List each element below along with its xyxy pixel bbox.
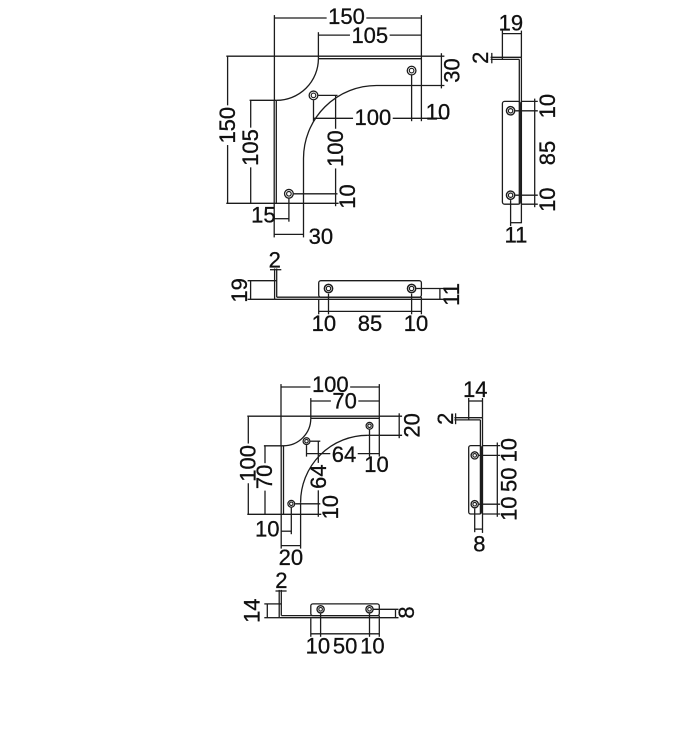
dim B 64 horizontal: ext right edge xyxy=(378,435,380,456)
svg-text:105: 105 xyxy=(238,129,263,166)
side B bar xyxy=(469,446,482,514)
svg-text:10: 10 xyxy=(255,517,279,542)
bottom A dims 10-85-10: line xyxy=(319,310,422,312)
hole A corner xyxy=(309,91,318,100)
dim B 64 horizontal: ext corner hole xyxy=(306,445,308,457)
bracket B concave corner arc xyxy=(284,418,311,446)
side B flange top with 2-dim ext xyxy=(454,417,482,419)
side B right dims: ext bar bottom xyxy=(483,513,500,515)
bottom A plate bottom edge xyxy=(275,298,422,300)
svg-text:50: 50 xyxy=(333,634,357,659)
bottom B bar xyxy=(311,604,380,616)
dim B 20 bottom: line xyxy=(281,545,300,547)
svg-text:10: 10 xyxy=(496,438,521,462)
dim B 70 top: line xyxy=(311,400,331,402)
svg-text:150: 150 xyxy=(215,107,240,144)
dim B 70 top: left extension xyxy=(310,398,312,418)
bottom B bar hole left xyxy=(317,606,324,613)
dim B 70 left: line xyxy=(264,446,266,463)
dim A 15: ext left edge xyxy=(273,203,275,237)
svg-text:11: 11 xyxy=(504,222,527,247)
bracket A right edge xyxy=(420,56,422,85)
bottom A dim 19: lower ext xyxy=(248,298,275,300)
bottom A flange inner with 2-dim ext xyxy=(276,269,278,298)
svg-text:100: 100 xyxy=(323,130,348,167)
svg-text:14: 14 xyxy=(240,598,265,622)
svg-text:8: 8 xyxy=(394,606,419,618)
bottom A dims: ext right hole xyxy=(411,294,413,315)
bottom A dim 19: upper ext xyxy=(248,280,275,282)
bracket B right edge xyxy=(378,416,380,435)
svg-text:10: 10 xyxy=(496,496,521,520)
side B plate outer edge xyxy=(482,418,484,533)
bottom B dim 14: line xyxy=(266,604,268,618)
side B flange end cap xyxy=(468,418,470,420)
dim A 150 top: left extension xyxy=(273,15,275,101)
dim A 105 left: line xyxy=(250,100,252,127)
svg-text:2: 2 xyxy=(275,568,287,593)
bracket B bottom edge with dim extensions xyxy=(247,513,321,515)
side A dim 19: line xyxy=(502,33,521,35)
svg-text:10: 10 xyxy=(312,311,336,336)
dim B 100 left: line xyxy=(247,416,249,443)
svg-text:70: 70 xyxy=(252,465,277,489)
bracket A left fold line xyxy=(275,100,277,203)
side A right dims: line xyxy=(534,99,536,208)
svg-text:30: 30 xyxy=(309,224,333,249)
side B plate inner edge xyxy=(479,420,481,514)
bracket A inner corner arc xyxy=(304,86,377,159)
svg-text:10: 10 xyxy=(335,184,360,208)
side A plate inner edge xyxy=(518,59,520,204)
side A dim 2: tick xyxy=(491,53,493,63)
dim A 150 left: line xyxy=(227,56,229,105)
dim A 30 bottom: ext inner edge xyxy=(303,203,305,237)
bottom B flange inner with 2-dim ext xyxy=(280,590,282,616)
hole A right arm xyxy=(407,66,416,75)
side B right dims: line xyxy=(496,443,498,517)
side B dim 8: line xyxy=(475,528,483,530)
bracket B left fold line xyxy=(283,446,285,515)
bottom A plate right cap xyxy=(420,297,422,299)
dim A 15: ext bottom hole xyxy=(288,199,290,222)
svg-text:10: 10 xyxy=(535,94,560,118)
svg-text:10: 10 xyxy=(426,100,450,125)
dim A 100 vertical: ext bottom hole xyxy=(294,193,338,195)
svg-text:10: 10 xyxy=(318,495,343,519)
bracket A left edge xyxy=(273,100,275,203)
bracket A bottom edge with dim extensions xyxy=(226,202,338,204)
svg-text:2: 2 xyxy=(468,52,493,64)
svg-text:64: 64 xyxy=(332,442,356,467)
bracket A left arm inner edge xyxy=(303,159,305,204)
dim B 10 bottom-left: ext left edge xyxy=(280,514,282,548)
side A bar xyxy=(502,101,520,204)
svg-text:50: 50 xyxy=(496,468,521,492)
bracket A top arm inner edge xyxy=(377,85,422,87)
svg-text:8: 8 xyxy=(473,532,485,557)
bottom B dim 8: ext right hole xyxy=(374,608,399,610)
dim A 105 top: line xyxy=(318,34,350,36)
bracket B top fold line xyxy=(311,417,380,419)
svg-text:70: 70 xyxy=(332,389,356,414)
side A bar hole top xyxy=(506,107,514,115)
dim B 64 vertical: ext corner hole xyxy=(310,440,320,442)
dim A 15: line xyxy=(274,218,289,220)
svg-text:85: 85 xyxy=(358,311,382,336)
svg-text:30: 30 xyxy=(440,58,465,82)
side B dim 14: line xyxy=(469,400,483,402)
bottom A flange far cap xyxy=(275,280,277,282)
bracket A concave corner arc xyxy=(276,59,318,101)
svg-text:20: 20 xyxy=(279,545,303,570)
svg-text:15: 15 xyxy=(251,202,275,227)
side B dim 14: left extension xyxy=(468,398,470,418)
hole A bottom arm xyxy=(285,189,294,198)
dim B 20 right: lower extension xyxy=(379,434,402,436)
bottom B dim 14: lower ext xyxy=(264,617,279,619)
hole B bottom arm xyxy=(288,500,295,507)
bracket B top edge with dim extensions xyxy=(247,415,402,417)
bottom A dims: ext left hole xyxy=(328,294,330,315)
side A right dims: ext bottom hole xyxy=(515,194,537,196)
dim A 100 horizontal: line xyxy=(314,117,354,119)
dim A 30 right: line xyxy=(440,53,442,88)
bottom A dim 2: tick xyxy=(270,269,281,271)
side B right dims: ext top hole xyxy=(479,454,500,456)
side A right dims: ext top hole xyxy=(515,110,537,112)
svg-text:14: 14 xyxy=(463,377,487,402)
side B flange bottom with 2-dim ext xyxy=(454,419,480,421)
bottom A dim 19: line xyxy=(250,281,252,300)
side A bar hole bottom xyxy=(506,191,514,199)
dim A 105 top: left extension xyxy=(317,32,319,59)
dim A 100 horizontal: ext right hole xyxy=(411,75,413,121)
svg-text:2: 2 xyxy=(433,413,458,425)
dim A 100 vertical: ext corner hole xyxy=(318,94,337,96)
bottom B dim 8: line xyxy=(395,609,397,617)
bottom B dims: ext right hole xyxy=(369,614,371,637)
svg-text:100: 100 xyxy=(355,105,392,130)
side A flange end cap xyxy=(501,57,503,59)
bottom A dims: ext bar left end xyxy=(318,300,320,314)
svg-text:2: 2 xyxy=(269,247,281,272)
svg-text:10: 10 xyxy=(306,634,330,659)
bottom B plate right cap xyxy=(378,616,380,618)
dim B 20 bottom: ext inner edge xyxy=(300,514,302,548)
hole B corner xyxy=(303,438,310,445)
dim B 64 horizontal: ext right hole xyxy=(369,430,371,457)
svg-text:10: 10 xyxy=(364,452,388,477)
bottom A bar xyxy=(319,281,422,298)
svg-text:10: 10 xyxy=(404,311,428,336)
bottom B dim 14: upper ext xyxy=(264,603,279,605)
dim B 100 top: right extension xyxy=(378,384,380,416)
bracket A top fold line xyxy=(318,58,421,60)
svg-text:20: 20 xyxy=(399,413,424,437)
svg-text:11: 11 xyxy=(439,283,464,306)
side A plate outer edge xyxy=(520,57,522,223)
bottom B flange outer with 2-dim ext xyxy=(278,590,280,618)
bottom A bar hole right xyxy=(407,284,415,292)
dim B 64 vertical: line xyxy=(317,441,319,463)
dim A 30 bottom: line xyxy=(274,233,303,235)
dim B 100 top: left extension xyxy=(280,384,282,446)
side A right dims: ext bar top xyxy=(522,100,538,102)
bottom B plate top edge xyxy=(281,615,379,617)
dim A 100 horizontal: ext right edge xyxy=(420,86,422,122)
svg-text:10: 10 xyxy=(360,634,384,659)
dim B 10 bottom-left: ext hole xyxy=(290,508,292,535)
side A right dims: ext bar bottom xyxy=(522,203,538,205)
bottom B dims: ext bar left end xyxy=(310,618,312,636)
dim B 64 horizontal: line xyxy=(307,453,331,455)
bottom B dims 10-50-10: line xyxy=(311,633,380,635)
bottom B bar hole right xyxy=(366,606,373,613)
side A flange top with 2-dim ext xyxy=(491,56,522,58)
svg-text:10: 10 xyxy=(535,187,560,211)
dim A 100 vertical: line xyxy=(335,95,337,128)
bottom A plate top edge xyxy=(277,296,422,298)
svg-text:105: 105 xyxy=(351,23,388,48)
bracket B top arm inner edge xyxy=(368,434,380,436)
bottom B dim 2: tick xyxy=(276,590,287,592)
svg-text:64: 64 xyxy=(306,464,331,488)
dim B 100 top: line xyxy=(281,386,310,388)
bottom A dim 11: ext plate bottom xyxy=(421,298,444,300)
dim A 105 left: top extension xyxy=(250,99,277,101)
bottom B dims: ext bar right end xyxy=(378,618,380,636)
bracket B left edge xyxy=(280,446,282,515)
dim B 20 right: line xyxy=(398,413,400,438)
side B right dims: ext bar top xyxy=(483,445,500,447)
hole B right arm xyxy=(366,422,373,429)
bracket A top edge with dim extensions xyxy=(226,55,444,57)
side B dim 2: tick xyxy=(455,413,457,424)
side A dim 19: left extension xyxy=(501,31,503,58)
bracket B inner corner arc xyxy=(301,435,368,502)
side B dim 8: ext hole xyxy=(474,509,476,533)
side A dim 11: ext hole xyxy=(510,200,512,226)
side B dim 14: right extension xyxy=(482,398,484,418)
svg-text:19: 19 xyxy=(499,10,523,35)
bottom A flange outer with 2-dim ext xyxy=(274,269,276,300)
side A dim 11: line xyxy=(511,222,522,224)
dim B 64 vertical: ext bottom hole xyxy=(295,503,320,505)
dim A 150 top: right extension xyxy=(420,15,422,56)
bottom A bar hole left xyxy=(324,284,332,292)
side A dim 19: right extension xyxy=(520,31,522,58)
side B bar hole bottom xyxy=(471,501,478,508)
bottom A dim 11: ext right hole xyxy=(416,288,444,290)
dim B 70 left: top extension xyxy=(264,445,284,447)
svg-text:85: 85 xyxy=(535,141,560,165)
svg-text:19: 19 xyxy=(227,278,252,302)
dim A 30 right: lower extension xyxy=(421,85,444,87)
side B bar hole top xyxy=(471,452,478,459)
dim A 100 horizontal: ext corner hole xyxy=(313,100,315,121)
bottom B flange far cap xyxy=(279,603,281,605)
bottom B plate bottom edge with 8-dim ext xyxy=(279,617,398,619)
side A flange bottom with 2-dim ext xyxy=(491,58,520,60)
bottom B dims: ext left hole xyxy=(320,614,322,637)
dim B 10 bottom-left: line xyxy=(281,530,291,532)
bracket B left arm inner edge xyxy=(300,502,302,514)
bottom A dims: ext bar right end xyxy=(420,300,422,314)
bottom A dim 11: line xyxy=(439,289,441,300)
dim A 150 top: line xyxy=(274,17,326,19)
side B right dims: ext bottom hole xyxy=(479,503,500,505)
